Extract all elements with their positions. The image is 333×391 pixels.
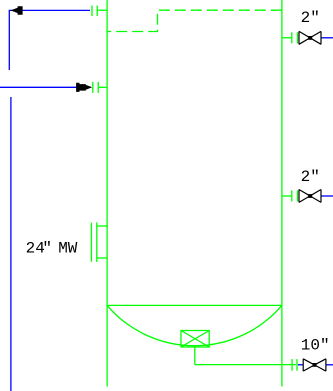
svg-text:": " bbox=[42, 240, 52, 258]
svg-text:2": 2" bbox=[301, 9, 320, 27]
svg-text:2": 2" bbox=[301, 168, 320, 186]
svg-text:10": 10" bbox=[301, 337, 330, 355]
svg-text:MW: MW bbox=[58, 240, 78, 258]
